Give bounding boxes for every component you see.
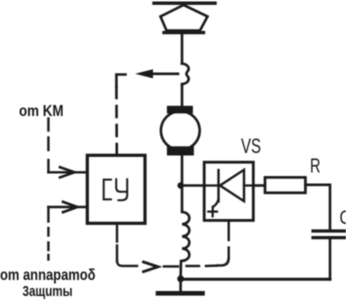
wire: bump to motor	[181, 84, 184, 106]
capacitor leg down	[329, 239, 332, 279]
svg-text:R: R	[310, 155, 321, 177]
wire: motor to node A	[181, 156, 184, 187]
node B junction dot	[177, 275, 184, 282]
svg-text:VS: VS	[241, 135, 261, 158]
CU output corner	[117, 226, 137, 266]
gate terminal plus	[208, 207, 217, 217]
arrow from CU to gate (points right)	[144, 262, 159, 272]
ground stem	[179, 279, 182, 291]
wire: node A to VS box	[181, 184, 205, 187]
input arrow 2 (from protection)	[48, 202, 87, 212]
gate lead	[213, 200, 219, 208]
bottom wire to capacitor leg	[181, 278, 330, 281]
wire: VS box to resistor	[253, 184, 265, 187]
VS gate dashed drop from box bottom	[218, 220, 229, 265]
input arrow 1 (from KM)	[48, 167, 87, 177]
pantograph pentagon	[161, 5, 208, 31]
motor M : top brush	[167, 106, 193, 114]
svg-text:3aщumы: 3aщumы	[23, 283, 73, 300]
node A junction dot	[177, 182, 183, 188]
svg-text:om KM: om KM	[19, 103, 64, 120]
wire: pantograph to bump	[181, 34, 184, 64]
CU control unit box	[87, 155, 145, 223]
CU label glyphs	[104, 179, 128, 200]
dashed line to protection label	[47, 207, 49, 260]
wire: resistor to right drop	[305, 185, 330, 230]
resistor R	[265, 177, 305, 192]
thyristor wire to box right	[244, 184, 253, 186]
dashed line from KM label	[47, 119, 49, 173]
dashed corner + vertical dashed line to CU box top	[116, 75, 125, 156]
capacitor C top plate	[313, 229, 346, 232]
arrow to control (points left)	[135, 69, 178, 78]
thyristor cathode bar	[217, 170, 219, 202]
current-sensor bump on wire	[182, 64, 189, 85]
capacitor C bottom plate	[313, 236, 346, 239]
thyristor triangle	[220, 170, 244, 201]
svg-text:C: C	[340, 208, 346, 229]
contact wire (catenary)	[154, 2, 215, 5]
ground (rail) bar	[158, 291, 203, 296]
thyristor U1: anode wire	[204, 184, 218, 186]
thyristor box VS	[204, 162, 253, 220]
motor bottom brush	[167, 146, 194, 155]
smoothing reactor (coil)	[181, 186, 190, 279]
pantograph base bar	[164, 31, 204, 34]
motor circle	[161, 111, 200, 150]
svg-text:om annapamoδ: om annapamoδ	[0, 267, 96, 284]
dashed gate line across	[164, 264, 218, 267]
